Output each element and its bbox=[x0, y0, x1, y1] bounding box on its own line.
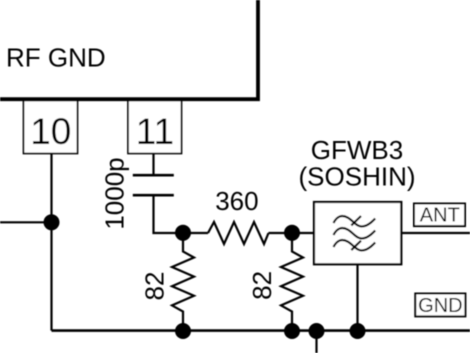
svg-text:GND: GND bbox=[418, 295, 462, 317]
IC body edge (RF GND block outline) bbox=[0, 0, 258, 99]
filter wave top slash bbox=[351, 216, 361, 225]
wire node B to filter input bbox=[292, 232, 314, 234]
svg-text:1000p: 1000p bbox=[99, 157, 129, 229]
svg-text:360: 360 bbox=[215, 186, 258, 216]
filter wave top bbox=[334, 216, 376, 226]
filter wave bottom bbox=[334, 240, 376, 250]
wire capacitor bottom to node A bbox=[154, 196, 184, 233]
wire filter output to right edge (ANT net) bbox=[401, 232, 470, 234]
pin 10 box bbox=[24, 101, 78, 154]
junction dot R82 right at bus bbox=[284, 323, 300, 339]
resistor 360 (horizontal zigzag) bbox=[208, 222, 269, 244]
svg-text:82: 82 bbox=[140, 272, 170, 301]
wire ground stub to bottom edge bbox=[315, 331, 317, 353]
svg-text:(SOSHIN): (SOSHIN) bbox=[299, 162, 416, 192]
wire pin 11 to capacitor bbox=[152, 154, 154, 177]
ground bus wire bbox=[52, 329, 470, 332]
filter wave middle bbox=[334, 228, 376, 238]
node B junction dot bbox=[284, 225, 300, 241]
svg-text:RF GND: RF GND bbox=[6, 43, 106, 73]
capacitor C top plate bbox=[133, 174, 174, 177]
pin 11 box bbox=[128, 101, 182, 154]
wire stub to left edge bbox=[0, 221, 52, 223]
svg-text:GFWB3: GFWB3 bbox=[311, 135, 403, 165]
wire node A to resistor 360 bbox=[183, 232, 208, 234]
svg-text:11: 11 bbox=[136, 111, 174, 152]
junction dot pin10/left stub bbox=[44, 214, 60, 230]
resistor 82 left (vertical zigzag, node A to ground) bbox=[172, 233, 194, 331]
capacitor C bottom plate bbox=[133, 194, 174, 197]
ANT net label box bbox=[414, 204, 465, 227]
resistor 82 right (vertical zigzag, node B to ground) bbox=[281, 233, 303, 331]
svg-text:ANT: ANT bbox=[420, 204, 460, 226]
junction dot filter ground pin at bus bbox=[350, 323, 366, 339]
node A junction dot bbox=[175, 225, 191, 241]
GND net label box bbox=[415, 294, 465, 317]
junction dot ground stub at bus bbox=[309, 323, 325, 339]
wire resistor 360 to node B bbox=[269, 232, 293, 234]
svg-text:82: 82 bbox=[247, 271, 277, 300]
svg-text:10: 10 bbox=[30, 111, 71, 152]
filter wave bottom slash bbox=[351, 241, 361, 250]
junction dot R82 left at bus bbox=[175, 323, 191, 339]
wire filter bottom pin to ground bus bbox=[356, 264, 358, 331]
filter U1 box (GFWB3 SOSHIN) bbox=[314, 202, 401, 264]
wire pin 10 down to ground bus bbox=[50, 154, 52, 331]
